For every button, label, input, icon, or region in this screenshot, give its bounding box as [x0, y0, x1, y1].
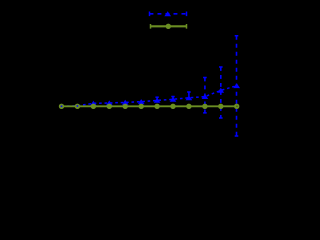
error bar p8 — [172, 97, 174, 100]
circle m8 — [171, 105, 174, 108]
legend blue triangle — [164, 11, 171, 16]
error bar p12 — [236, 36, 238, 136]
circle m7 — [155, 105, 158, 108]
olive series line — [62, 105, 237, 107]
error bar p9 — [188, 92, 190, 98]
blue dots inside first two circles — [61, 105, 78, 107]
circle m6 — [140, 105, 143, 108]
triangle p4 — [106, 100, 113, 105]
triangle p7 — [154, 98, 161, 103]
circle m9 — [187, 105, 190, 108]
triangle p5 — [122, 100, 129, 105]
triangle p10 — [202, 94, 209, 99]
triangle p11 — [217, 88, 224, 93]
circle m11 — [219, 105, 222, 108]
error bar p10 — [204, 78, 206, 113]
triangle p9 — [186, 95, 193, 100]
blue series error bars (dashed) with caps — [155, 36, 238, 136]
circle m4 — [108, 105, 111, 108]
circle m3 — [92, 105, 95, 108]
legend olive entry: line with caps and circle — [151, 24, 187, 29]
triangle p12 — [233, 83, 240, 88]
legend blue entry: dashed line with caps and triangle — [150, 12, 187, 17]
circle m2 — [76, 105, 79, 108]
legend olive circle — [166, 24, 171, 29]
circle m12 — [235, 105, 238, 108]
blue series connecting dashed line — [62, 86, 237, 107]
circle m5 — [124, 105, 127, 108]
olive circle markers (open rings) — [60, 105, 239, 108]
circle m10 — [203, 105, 206, 108]
circle m1 — [60, 105, 63, 108]
triangle p6 — [138, 99, 145, 104]
triangle p8 — [170, 97, 177, 102]
triangle p3 — [90, 101, 97, 106]
error bar p11 — [220, 67, 222, 118]
blue triangle markers p3-p12 — [90, 83, 240, 106]
error bar p7 — [156, 97, 158, 100]
